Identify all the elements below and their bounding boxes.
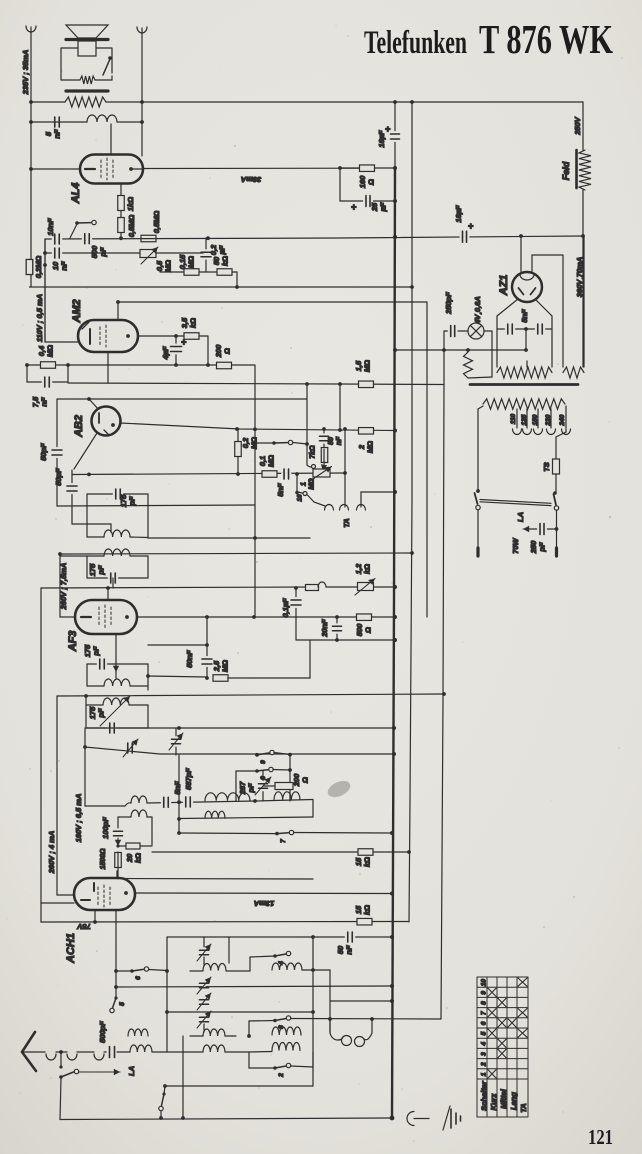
lamp winding zigzag (464, 352, 473, 378)
resistor 2,5M (213, 675, 228, 682)
AM2 diag tick (82, 322, 89, 329)
field coil Feld zigzag (579, 150, 591, 190)
AM2 grid top lead (117, 302, 119, 321)
svg-text:Kurz: Kurz (489, 1093, 498, 1110)
AF3 plate dot (125, 615, 129, 619)
cap 7,5nF (43, 381, 51, 384)
AZ1 top arc (520, 275, 534, 281)
HV right end zigzag (563, 367, 584, 378)
mains cord double line (480, 500, 551, 504)
svg-text:360V¸70mA: 360V¸70mA (575, 257, 584, 297)
bus y1086 (165, 1085, 313, 1087)
tube AL4 (80, 155, 143, 184)
ACH1 cathode bar (81, 899, 90, 901)
ACH1 left lead b (57, 894, 74, 896)
vert x340 (339, 384, 341, 430)
svg-text:0,2MΩ: 0,2MΩ (34, 256, 43, 279)
bus y238 grid line (45, 236, 583, 239)
osc coil5 (274, 792, 300, 800)
svg-text:Lang: Lang (509, 1092, 518, 1110)
coil rowB right (272, 1027, 301, 1035)
ACH1 grid dashes (97, 887, 99, 905)
svg-text:Schalter: Schalter (480, 1080, 489, 1111)
IFT3 top edge (87, 663, 148, 665)
wire y1001 (330, 1000, 392, 1002)
svg-text:160V ; 6,5 mA: 160V ; 6,5 mA (74, 794, 83, 843)
resistor 15k b (357, 918, 372, 925)
bushing cup 2 (67, 1054, 77, 1060)
cap 25uF loop (339, 168, 341, 201)
wire y253 (45, 252, 203, 254)
svg-text:10: 10 (297, 494, 304, 502)
AL4 cathode bar (85, 168, 95, 170)
wire 50k drop (236, 272, 238, 287)
bus y350 heater (395, 349, 526, 351)
AF3 cathode bar (81, 616, 91, 618)
svg-text:Mittel: Mittel (499, 1088, 508, 1108)
vert rail x412 (409, 102, 412, 922)
svg-text:16µF: 16µF (454, 205, 463, 223)
cap 5nF (53, 121, 61, 124)
wire right rail x142 (141, 28, 143, 156)
cap 50pF b (71, 470, 73, 524)
ACH1 left lead a (41, 902, 74, 904)
svg-text:0,1µF: 0,1µF (281, 598, 290, 618)
svg-text:MΩ: MΩ (46, 345, 55, 357)
svg-text:2: 2 (278, 1073, 285, 1078)
trimmer col c (203, 998, 206, 1006)
wire AZ1 anode (520, 236, 522, 272)
pilot lamp (468, 323, 484, 339)
svg-text:150: 150 (532, 414, 539, 425)
tube AZ1 (512, 272, 542, 302)
switch 5 (114, 969, 118, 973)
cap 250pF lamp (444, 330, 450, 332)
ant coil lead (117, 1051, 130, 1053)
svg-text:LA: LA (516, 512, 525, 522)
bus y695 (57, 694, 444, 696)
cap 5nF det (283, 473, 291, 476)
wire y122 (31, 121, 87, 123)
hum coil bar (66, 89, 108, 92)
wire y640 (296, 639, 395, 641)
resistor 0,2M on left rail (30, 102, 32, 287)
svg-text:110: 110 (510, 413, 517, 424)
vert x330 a (313, 969, 330, 971)
fuse TS (553, 459, 560, 474)
switch LA to bus (60, 1078, 61, 1120)
wire y1012 (167, 1011, 313, 1013)
wire 3,5k drop (207, 336, 209, 365)
mains left prong (477, 510, 479, 548)
bus y728 (86, 727, 394, 729)
svg-text:kΩ: kΩ (189, 318, 198, 328)
cap 500pF ant (108, 1051, 116, 1054)
left rail bottom corner (40, 903, 42, 922)
AB2 diode diag (74, 433, 97, 469)
resistor 7k (321, 448, 328, 463)
IFT2 right vert (147, 556, 149, 578)
dial lamp arrow LA (523, 528, 536, 530)
AL4 plate dot (129, 167, 133, 171)
bus y922 (41, 921, 409, 924)
mains tap 220 (550, 409, 552, 428)
osc coil6 on y818 (205, 811, 225, 818)
svg-text:39mA: 39mA (241, 175, 261, 184)
mains left switch (475, 493, 478, 504)
svg-text:nF: nF (345, 945, 354, 955)
svg-text:110V ; 0,5 mA: 110V ; 0,5 mA (35, 294, 44, 342)
vert x179 (178, 755, 180, 833)
coil rowB left (128, 1029, 148, 1036)
bus y474 (72, 473, 345, 475)
dots y168 (338, 166, 342, 170)
AF3 grid lead (107, 588, 109, 601)
wire y524 (72, 523, 111, 525)
svg-text:pF: pF (247, 783, 256, 794)
AZ1 filament left diag (497, 299, 518, 316)
wire left rail x31 top (30, 27, 32, 102)
svg-text:ACH1: ACH1 (65, 933, 77, 964)
cup TA3 (357, 505, 366, 511)
svg-text:50nF: 50nF (185, 650, 194, 668)
ACH1 grid lead (115, 910, 117, 998)
svg-text:20nF: 20nF (320, 619, 329, 638)
svg-text:MΩ: MΩ (363, 360, 372, 372)
svg-text:pF: pF (538, 542, 547, 553)
AB2 dot (111, 423, 115, 427)
svg-text:1500Ω: 1500Ω (100, 848, 107, 870)
fuse TS bottom (555, 474, 557, 492)
vert x85 osc (84, 728, 86, 806)
osc coil2 (118, 816, 131, 818)
cap 5nF osc (162, 801, 170, 804)
svg-text:kΩ: kΩ (363, 857, 372, 867)
svg-text:µF: µF (218, 245, 227, 255)
svg-text:kΩ: kΩ (134, 853, 143, 863)
wire sw9 right (274, 753, 290, 755)
switch 1 drop (160, 1111, 162, 1118)
svg-text:220: 220 (545, 414, 552, 426)
bushing cup 1 (46, 1054, 56, 1060)
IFT3 right vert (147, 664, 149, 690)
svg-text:Feld: Feld (561, 161, 571, 180)
IFT4 var arrow (100, 696, 130, 726)
tube AB2 (92, 407, 121, 436)
svg-text:50: 50 (328, 437, 335, 445)
speaker switch (103, 59, 110, 75)
svg-text:+: + (181, 337, 187, 347)
field loop resistor (80, 76, 95, 84)
AB2 top diag (89, 399, 100, 411)
cap 50nF sw (323, 429, 325, 449)
svg-text:+: + (468, 221, 474, 231)
svg-text:240: 240 (559, 414, 566, 426)
svg-text:5nF: 5nF (520, 309, 529, 323)
vert x307 (306, 384, 308, 465)
AB2 bar (98, 413, 100, 423)
wire y329 heater center (497, 328, 552, 330)
resistor 0,4M (41, 362, 56, 369)
switch 1 (164, 1086, 165, 1094)
mains tap 125 (526, 409, 528, 428)
switch 6 (116, 970, 132, 972)
cap 287pF (262, 771, 264, 801)
ground wire (414, 1118, 429, 1120)
osc coil4 (205, 793, 250, 801)
coil rowC right (272, 1043, 300, 1051)
bus y102 (B+ top) (31, 101, 65, 103)
svg-text:9: 9 (260, 760, 267, 764)
svg-text:587pF: 587pF (184, 768, 193, 790)
cap 16uF b inline y236 (461, 235, 468, 238)
resistor 20k (126, 843, 140, 849)
cap 0,2uF vertical (205, 238, 207, 272)
resistor 15k a (358, 849, 373, 856)
coil rowA right (272, 963, 302, 970)
IFT4 bottom edge (86, 727, 148, 729)
coil rowC mid (203, 1045, 225, 1052)
svg-text:nF: nF (60, 261, 69, 271)
switch above 10nF (70, 224, 77, 238)
svg-text:75V: 75V (76, 922, 90, 931)
wire sw8 right (273, 769, 290, 772)
svg-text:4: 4 (481, 1042, 488, 1047)
antenna lead (24, 1051, 45, 1053)
svg-text:9: 9 (481, 991, 488, 995)
wire AL4 screen drop (120, 184, 122, 239)
paper speckles (209, 177, 211, 179)
HV winding zigzag (497, 367, 552, 378)
switch 9 (255, 753, 259, 757)
wire y1019 long (291, 1018, 441, 1021)
left tall rail x41 (40, 588, 42, 903)
cap 175pF t3 (98, 663, 106, 666)
svg-text:50pF: 50pF (54, 468, 63, 486)
vert x255 (254, 366, 256, 618)
TA right wire (361, 492, 395, 507)
resistor 2M (359, 428, 374, 435)
bus y302 (118, 301, 427, 303)
bus y399 (57, 398, 307, 400)
switch 2 (249, 1067, 275, 1069)
bus y852 (152, 851, 409, 853)
trimmer col a (203, 937, 205, 950)
IFT3 coil (87, 685, 104, 687)
speaker voice coil (78, 41, 96, 56)
IFT4 right vert (147, 705, 149, 728)
terminal cup left (speaker line) (26, 26, 36, 32)
resistor 200ohm (217, 362, 232, 369)
IFT2 left vert (86, 556, 88, 578)
svg-text:5: 5 (481, 1031, 488, 1035)
IFT1 left vert (86, 494, 88, 537)
pot 1,2k (358, 583, 374, 591)
svg-text:kΩ: kΩ (363, 905, 372, 915)
filter choke on y122 (87, 115, 117, 122)
cap 50pF a (56, 399, 58, 506)
wire AL4 plate left (31, 168, 80, 170)
IFT1 coil (87, 536, 104, 538)
wire y846 (118, 845, 152, 847)
wire y645 (148, 644, 207, 646)
bus y987 (116, 986, 392, 987)
svg-text:AF3: AF3 (67, 631, 79, 653)
cup TA2 (340, 505, 349, 511)
right rail bottom (583, 236, 585, 367)
svg-text:3: 3 (481, 1052, 488, 1056)
wire y833 (179, 832, 277, 835)
paper smudge (325, 778, 353, 801)
switch LA drop (60, 1052, 62, 1066)
svg-text:7: 7 (481, 1011, 488, 1015)
svg-text:8: 8 (481, 1001, 488, 1005)
pot 0,5M with arrow (140, 250, 156, 258)
svg-text:pF: pF (99, 247, 108, 258)
AZ1 filament loop right (532, 255, 563, 367)
vert x60 AF3 (59, 554, 61, 617)
svg-text:nF: nF (40, 397, 49, 407)
switch 3 (249, 1020, 275, 1023)
heater right vert (551, 316, 553, 367)
hum resistor on 102 bus (65, 97, 106, 107)
field coil core bar (575, 150, 578, 188)
svg-text:Ω: Ω (301, 777, 310, 784)
bus y168 right (39mA line) (143, 167, 360, 169)
osc coil1 (85, 805, 125, 807)
wire y272 (160, 271, 237, 273)
cap 250pF dial (528, 528, 556, 530)
cap 10nF on y238 (53, 238, 61, 241)
svg-text:5: 5 (119, 1002, 126, 1006)
svg-text:5nF: 5nF (173, 781, 182, 795)
wire y676 (148, 676, 207, 677)
svg-text:13mA: 13mA (254, 899, 274, 908)
svg-text:235V ; 35mA: 235V ; 35mA (21, 50, 30, 96)
resistor 1k vertical (118, 196, 125, 211)
AM2 plate dot (126, 334, 130, 338)
svg-text:4V¸0,6A: 4V¸0,6A (473, 296, 482, 325)
pot 1M drop (344, 429, 346, 507)
resistor 1500 (115, 853, 122, 868)
svg-text:10: 10 (481, 979, 488, 987)
vert x45 (44, 239, 46, 342)
wire x44 to AM2 (44, 239, 46, 342)
cap 587pF osc (184, 800, 192, 803)
IFT2 coil (87, 555, 104, 557)
svg-text:500pF: 500pF (98, 1021, 107, 1043)
svg-text:AZ1: AZ1 (498, 275, 510, 297)
dots y238 (119, 236, 123, 240)
svg-text:0,5MΩ: 0,5MΩ (127, 215, 136, 238)
trimmer x176 (175, 728, 177, 755)
ACH1 k lead (94, 910, 96, 922)
coil rowB mid (203, 1029, 225, 1036)
vert x313 (312, 937, 314, 1068)
resistor 160ohm (340, 167, 360, 169)
cap 50nF ant (346, 936, 354, 939)
terminal cup right (speaker line) (137, 27, 147, 33)
AL4 plate stub (131, 168, 143, 170)
svg-text:Ω: Ω (223, 348, 232, 355)
AB2 tick (104, 430, 108, 434)
svg-text:Ω: Ω (367, 179, 376, 186)
switch 10 blade (296, 474, 298, 491)
svg-text:AB2: AB2 (73, 415, 85, 438)
svg-text:1kΩ: 1kΩ (126, 197, 135, 211)
bus y617 AF3 plate (137, 616, 395, 618)
vert x167 (166, 937, 168, 1052)
trimmer on y747 (126, 747, 134, 750)
mains left lead (477, 409, 479, 491)
speaker gap bar (66, 38, 108, 41)
bus y365 (27, 364, 255, 366)
vert x249 (248, 1052, 250, 1068)
heater center tap (525, 329, 527, 350)
switch 8 (236, 770, 257, 772)
IFT1 right vert (147, 494, 149, 538)
vert x57 long (56, 696, 58, 895)
svg-text:AM2: AM2 (71, 299, 83, 323)
fuse TS feed (565, 429, 567, 432)
svg-text:MΩ: MΩ (267, 455, 276, 467)
junction dots y102 (29, 100, 33, 104)
mains tap 150 (537, 409, 539, 428)
antenna symbol (22, 1032, 36, 1071)
bus y287 (30, 286, 413, 288)
bus y879 (117, 878, 313, 881)
bus y383 (68, 383, 444, 385)
transformer core bar (470, 383, 578, 386)
IFT4 coil (86, 704, 103, 706)
coil rowA mid (190, 970, 203, 972)
switch 4 wire (249, 957, 251, 971)
svg-text:kΩ: kΩ (363, 564, 372, 574)
svg-text:TS: TS (542, 462, 551, 472)
svg-text:AL4: AL4 (70, 183, 82, 205)
mains right prong (556, 510, 558, 548)
resistor 1,5M (359, 381, 374, 388)
ACH1 top bar (93, 883, 95, 891)
arrow 100pF node (117, 838, 119, 846)
AM2 grid dashes (99, 327, 101, 346)
svg-text:pF: pF (128, 496, 137, 507)
ground arc (407, 1112, 414, 1126)
switch 4 (273, 954, 277, 958)
svg-text:Ω: Ω (364, 627, 373, 634)
svg-text:250V: 250V (573, 116, 582, 136)
wire y556 left (60, 555, 87, 557)
resistor 0,1M (262, 471, 277, 478)
dots y802 (253, 799, 257, 803)
ACH1 plate dot (124, 891, 128, 895)
bus y937 (167, 936, 392, 938)
svg-text:10nF: 10nF (46, 218, 55, 236)
resistor small y588 (306, 585, 319, 591)
svg-text:MΩ: MΩ (366, 441, 375, 453)
lamp winding top (467, 350, 469, 352)
svg-text:µF: µF (379, 202, 388, 212)
AL4 grid dashes (100, 160, 102, 178)
switch table grid (477, 977, 528, 1117)
primary winding zigzag (483, 399, 565, 409)
svg-text:nF: nF (336, 436, 343, 445)
cap 175pF t4 (108, 727, 116, 730)
svg-text:7kΩ: 7kΩ (310, 445, 317, 459)
svg-text:6: 6 (135, 976, 142, 980)
cap 5nF heater left (506, 328, 514, 331)
IFT2 bottom edge (87, 577, 148, 579)
